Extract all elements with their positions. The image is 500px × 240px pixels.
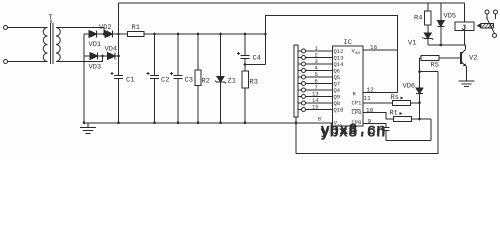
transistor V2 (465, 45, 467, 50)
node C1 gnd junction (117, 122, 120, 125)
zener Z1 (220, 34, 222, 77)
wire C4 junction to VDD riser (245, 64, 265, 66)
relay contact terminal A (485, 10, 489, 14)
node Rt/VD6 junction (418, 118, 421, 121)
svg-text:C3: C3 (185, 77, 193, 85)
svg-text:11: 11 (364, 95, 372, 102)
svg-text:R5: R5 (431, 62, 439, 70)
pin 12 wire (363, 91, 398, 93)
svg-text:C2: C2 (161, 77, 169, 85)
zener V1 (424, 33, 431, 39)
svg-text:CP1: CP1 (352, 100, 363, 107)
selector contact 14 (302, 101, 306, 105)
svg-text:10: 10 (366, 107, 374, 114)
selector switch bar (294, 45, 298, 117)
svg-text:VD1: VD1 (89, 41, 102, 49)
relay coil J (464, 3, 466, 22)
svg-text:Rt: Rt (390, 110, 398, 118)
diode VD2 (105, 31, 113, 38)
node R3 gnd junction (244, 122, 247, 125)
relay contact terminal C (493, 34, 497, 38)
svg-text:Rs: Rs (391, 94, 399, 102)
resistor R4 (427, 3, 429, 11)
svg-text:V1: V1 (408, 40, 416, 48)
diode VD1 (84, 33, 89, 35)
svg-text:Q10: Q10 (334, 107, 344, 114)
svg-text:R2: R2 (202, 78, 210, 86)
capacitor C1 (114, 75, 123, 77)
bottom loop wire (296, 72, 438, 154)
relay contact terminal B (494, 10, 498, 14)
selector contact 2 (302, 56, 306, 60)
node C2 rail junction (153, 33, 156, 36)
svg-text:IC: IC (344, 39, 352, 47)
svg-text:12: 12 (367, 86, 375, 93)
wire bridge right DC+ vertical (118, 3, 120, 76)
IC U1 CD4060 box (333, 46, 364, 126)
wire Rt to right riser (430, 119, 432, 141)
pin 16 wire (363, 49, 398, 51)
selector contact 3 (302, 62, 306, 66)
node rail end junction (264, 33, 267, 36)
node Rs/VD6 junction (418, 102, 421, 105)
node C2 gnd junction (153, 122, 156, 125)
AC input terminal top (4, 26, 8, 30)
node DC+ row2 junction (117, 55, 120, 58)
node C3 rail junction (177, 33, 180, 36)
diode VD4 (108, 53, 116, 60)
node Z1 gnd junction (219, 122, 222, 125)
wire AC top lead (8, 27, 45, 29)
resistor R3 (242, 71, 249, 88)
svg-text:VD6: VD6 (403, 83, 416, 91)
wire bridge left vertical to ground rail (83, 34, 85, 123)
wire secondary top to bridge (56, 28, 104, 35)
svg-text:CP0: CP0 (352, 109, 362, 116)
svg-text:C4: C4 (253, 55, 261, 63)
node C4 rail junction (244, 33, 247, 36)
node selector gnd junction (295, 122, 298, 125)
wire secondary bottom to bridge (56, 56, 103, 62)
wire main VDD rail (144, 33, 265, 35)
relay armature (481, 24, 494, 29)
wire AC bottom lead (8, 61, 45, 63)
node R2 gnd junction (197, 122, 200, 125)
svg-text:R1: R1 (132, 24, 140, 32)
resistor R5 (420, 57, 422, 59)
selector contact 15 (302, 108, 306, 112)
diode VD6 (416, 88, 423, 94)
transformer T tick (50, 20, 52, 24)
ground symbol V2 emitter (459, 80, 475, 82)
wire selector common down (295, 117, 297, 153)
node M2 junction (101, 55, 104, 58)
resistor Rt (394, 117, 412, 122)
svg-text:R: R (353, 91, 357, 98)
resistor R1 (128, 32, 145, 37)
node C4/R3 junction (244, 63, 247, 66)
svg-text:T: T (49, 14, 53, 22)
selector contact 5 (302, 75, 306, 79)
svg-text:V2: V2 (469, 55, 477, 63)
node C3 gnd junction (177, 122, 180, 125)
svg-text:15: 15 (312, 104, 319, 111)
resistor R2 (197, 34, 199, 70)
pin 11 wire with jog (363, 102, 393, 104)
capacitor C4 (244, 34, 246, 56)
resistor Rs (393, 100, 411, 105)
svg-text:dd: dd (355, 51, 360, 56)
svg-text:R4: R4 (414, 15, 422, 23)
node M1 junction (103, 33, 106, 36)
capacitor C5 oscillator (382, 127, 389, 129)
node R5 branch junction (418, 70, 421, 73)
svg-text:VD5: VD5 (444, 13, 457, 21)
selector contact 13 (302, 95, 306, 99)
diode VD5 (440, 3, 442, 20)
pin 10 wire with jog (363, 113, 394, 119)
capacitor C3 (177, 34, 179, 76)
selector contact 4 (302, 69, 306, 73)
pin 9 wire (363, 124, 386, 128)
capacitor C2 (154, 34, 156, 76)
transformer T primary winding (43, 28, 47, 62)
transformer T core (50, 23, 52, 64)
ground symbol main (87, 123, 89, 128)
svg-text:Z1: Z1 (228, 78, 236, 86)
selector contact 7 (302, 88, 306, 92)
wire R5 left riser (419, 58, 421, 119)
overline CP0bar (352, 109, 361, 111)
svg-text:16: 16 (370, 44, 378, 51)
node bridge-left gnd junction (83, 122, 86, 125)
svg-text:ybx8.cn: ybx8.cn (321, 121, 386, 139)
node DC+ row1 junction (117, 33, 120, 36)
wire VDD riser to IC pin16 loop (265, 16, 397, 93)
diode VD3 (84, 55, 90, 57)
selector contact 6 (302, 82, 306, 86)
transformer T secondary winding (56, 28, 60, 62)
svg-text:VD4: VD4 (105, 46, 118, 54)
svg-text:VD2: VD2 (99, 24, 112, 32)
node Z1 rail junction (219, 33, 222, 36)
relay contact blade (486, 14, 488, 20)
ground rail (84, 122, 333, 124)
selector contact 1 (302, 49, 306, 53)
wire branch to right riser (420, 71, 439, 73)
node VD5 junction (440, 44, 443, 47)
svg-text:C1: C1 (126, 77, 134, 85)
wire collector node horizontal (428, 44, 466, 46)
svg-text:VD3: VD3 (89, 64, 102, 72)
svg-text:R3: R3 (250, 79, 258, 87)
svg-text:J: J (462, 24, 467, 33)
node R2 rail junction (197, 33, 200, 36)
wire top supply line to relay (119, 2, 465, 4)
AC input terminal bottom (4, 60, 8, 64)
